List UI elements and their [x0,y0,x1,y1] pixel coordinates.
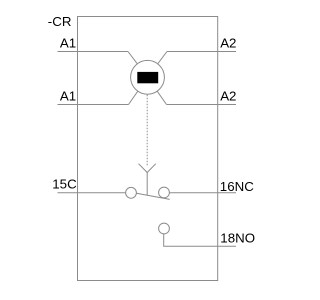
svg-text:16NC: 16NC [220,179,254,194]
svg-text:15C: 15C [52,176,77,191]
coil lead diagonal bottom-left [129,77,148,104]
actuator fork left arm [139,164,148,173]
mechanical link dotted line [146,95,148,167]
svg-text:18NO: 18NO [220,230,255,245]
coil K1 circle [131,60,165,94]
wire 16NC lead [169,192,236,194]
contact blade [137,193,170,199]
svg-text:A1: A1 [60,88,76,103]
coil lead diagonal top-left [128,52,148,78]
relay body outline [78,17,218,281]
contact terminal circle 18NO [159,223,170,234]
wire 15C lead [58,192,126,194]
contact terminal circle 16NC [159,187,170,198]
actuator stem [146,173,148,196]
coil lead diagonal bottom-right [148,77,167,104]
coil lead diagonal top-right [148,52,168,78]
contact terminal circle 15C [126,187,137,198]
svg-text:A2: A2 [220,88,236,103]
svg-text:-CR: -CR [48,14,72,29]
wire 18NO lead [164,234,236,246]
svg-text:A2: A2 [220,35,236,50]
wire A2 top lead [167,51,236,53]
wire A2 bottom lead [167,104,237,106]
coil core black bar [137,72,158,83]
actuator fork right arm [147,164,156,173]
wire A1 bottom lead [58,104,129,106]
wire A1 top lead [58,51,129,53]
svg-text:A1: A1 [60,35,76,50]
